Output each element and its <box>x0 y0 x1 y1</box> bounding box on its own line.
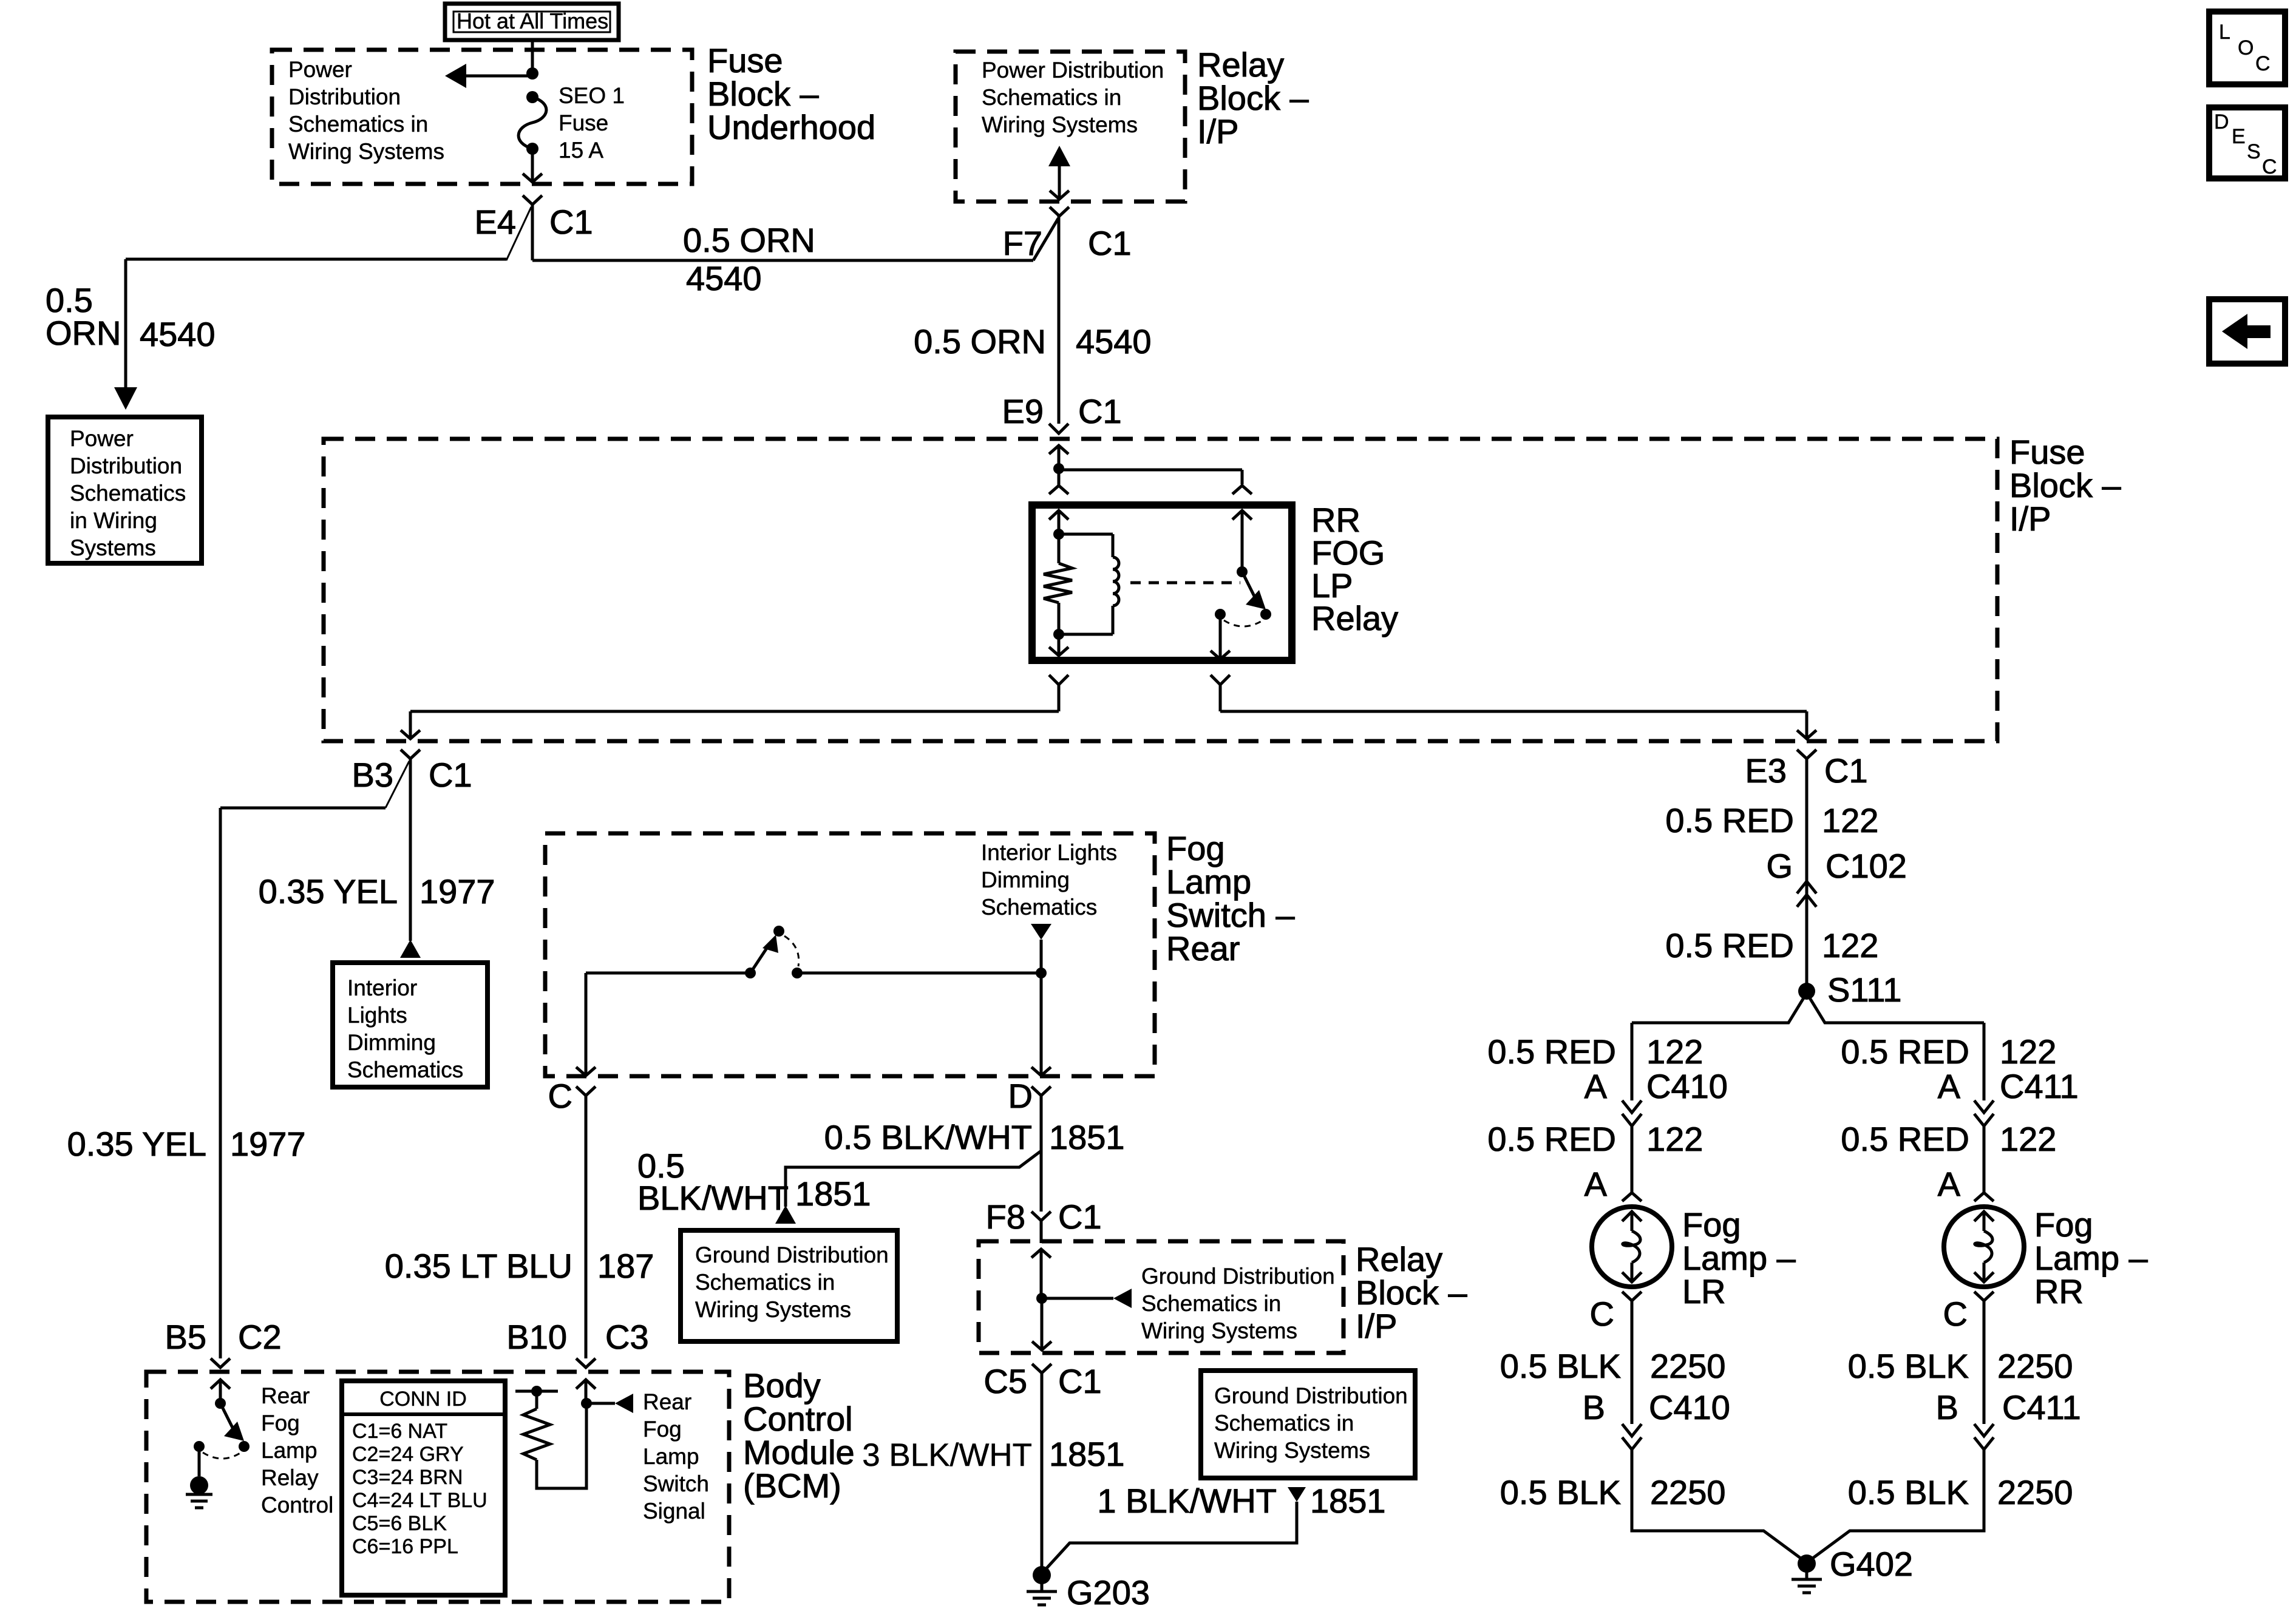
wire: coil low side to relay box bottom <box>1049 634 1068 656</box>
svg-text:Interior Lights: Interior Lights <box>981 840 1117 865</box>
svg-text:(BCM): (BCM) <box>743 1466 841 1505</box>
svg-text:B10: B10 <box>506 1318 567 1356</box>
svg-text:C: C <box>548 1077 572 1115</box>
connector C (switch) <box>548 1077 596 1115</box>
BCM relay control switch (B5 input) <box>194 1380 250 1459</box>
svg-text:C411: C411 <box>2000 1067 2079 1105</box>
title: Body Control Module (BCM) <box>743 1366 855 1505</box>
relay block I/P small dashed box (bottom) <box>979 1241 1343 1353</box>
title: Relay Block - I/P (bottom) <box>1356 1240 1467 1345</box>
wire arrow to ground distribution reference (right) <box>1042 1289 1132 1308</box>
pull-up resistor in BCM <box>515 1386 586 1488</box>
svg-text:C3=24 BRN: C3=24 BRN <box>352 1466 463 1489</box>
svg-text:A: A <box>1938 1067 1961 1105</box>
svg-text:E4: E4 <box>475 203 517 241</box>
svg-text:C: C <box>2255 52 2271 75</box>
connector at lamp RR pin C <box>1943 1292 1994 1333</box>
connector B / C411 (double chevron) <box>1936 1388 2081 1449</box>
svg-text:D: D <box>2214 110 2229 134</box>
svg-text:Fog: Fog <box>2034 1205 2093 1244</box>
connector at lamp LR pin C <box>1590 1292 1642 1333</box>
svg-text:LR: LR <box>1682 1272 1726 1310</box>
reference box: Power Distribution Schematics in Wiring Systems (left) <box>48 417 202 563</box>
connector at lamp RR pin A <box>1974 1193 1994 1201</box>
svg-text:C1: C1 <box>1058 1362 1102 1400</box>
svg-text:O: O <box>2238 36 2254 59</box>
svg-text:E: E <box>2232 125 2246 148</box>
svg-text:Underhood: Underhood <box>707 108 875 146</box>
svg-text:1977: 1977 <box>419 872 495 910</box>
svg-text:I/P: I/P <box>1197 112 1238 151</box>
title: RR FOG LP Relay <box>1311 501 1398 637</box>
svg-text:Rear: Rear <box>643 1389 691 1414</box>
svg-text:1 BLK/WHT: 1 BLK/WHT <box>1097 1482 1277 1520</box>
fog lamp RR (bulb symbol) <box>1944 1207 2024 1287</box>
svg-text:A: A <box>1938 1165 1961 1203</box>
svg-text:0.5 ORN: 0.5 ORN <box>914 322 1046 361</box>
svg-text:Relay: Relay <box>261 1465 319 1490</box>
svg-text:G402: G402 <box>1830 1545 1913 1583</box>
svg-text:B: B <box>1936 1388 1958 1426</box>
wire label: 0.5 BLK/WHT 1851 (branch) <box>637 1147 871 1217</box>
svg-text:Control: Control <box>743 1400 853 1438</box>
svg-text:B: B <box>1583 1388 1605 1426</box>
wire: switch to D exit arrow <box>1031 973 1051 1076</box>
svg-text:Rear: Rear <box>261 1383 310 1408</box>
reference text: Interior Lights Dimming Schematics (switch box) <box>981 840 1117 920</box>
connector: relay switch pin (top right) <box>1232 486 1252 494</box>
fog lamp LR (bulb symbol) <box>1592 1207 1672 1287</box>
reference box: Ground Distribution Schematics in Wiring Systems (right) <box>1201 1371 1415 1478</box>
corner box back-arrow <box>2209 299 2285 364</box>
svg-text:0.5 BLK/WHT: 0.5 BLK/WHT <box>824 1118 1032 1156</box>
wire: B3 branch to B5 <box>220 808 385 1358</box>
connector A / C410 (double chevron) <box>1584 1067 1728 1126</box>
wire label: 0.5 RED 122 (right C411 above) <box>1841 1032 2056 1071</box>
svg-text:Ground Distribution: Ground Distribution <box>695 1242 889 1267</box>
reference box: Interior Lights Dimming Schematics <box>333 963 487 1087</box>
svg-text:2250: 2250 <box>1997 1473 2073 1511</box>
wire label: 0.5 RED 122 (E3 upper) <box>1665 801 1878 839</box>
svg-text:Dimming: Dimming <box>981 867 1070 892</box>
svg-text:Schematics in: Schematics in <box>1141 1291 1281 1316</box>
wire: C5 down to G203 <box>1041 1373 1044 1571</box>
svg-text:Fog: Fog <box>1166 829 1225 867</box>
svg-text:F8: F8 <box>986 1198 1025 1236</box>
svg-text:0.5 RED: 0.5 RED <box>1841 1120 1969 1158</box>
connector B3 / C1 <box>352 750 472 808</box>
svg-text:CONN ID: CONN ID <box>379 1388 467 1411</box>
node: switch output junction at D leg <box>1036 968 1047 978</box>
wire from Hot box down to junction <box>531 40 534 73</box>
svg-text:Fog: Fog <box>261 1411 300 1436</box>
svg-text:Wiring Systems: Wiring Systems <box>982 112 1138 137</box>
svg-text:Fuse: Fuse <box>707 41 783 80</box>
svg-text:C5=6 BLK: C5=6 BLK <box>352 1512 447 1535</box>
title: Fuse Block - I/P <box>2009 433 2121 538</box>
svg-text:C1: C1 <box>1088 224 1132 262</box>
reference text: Power Distribution Schematics in Wiring Systems (relay block) <box>982 58 1164 137</box>
wire label: 0.5 RED 122 (S111 feed) <box>1665 926 1878 964</box>
wire label: 0.5 BLK 2250 (RR upper) <box>1848 1347 2073 1385</box>
title: Fuse Block - Underhood <box>707 41 875 146</box>
wire label: 0.5 ORN 4540 (left drop) <box>46 281 216 353</box>
svg-text:Relay: Relay <box>1197 46 1284 84</box>
title: Fog Lamp - RR <box>2034 1205 2148 1310</box>
svg-text:SEO 1: SEO 1 <box>559 83 625 108</box>
svg-text:in Wiring: in Wiring <box>70 508 157 533</box>
connector: relay coil pin (top left) <box>1049 470 1068 494</box>
wire: B3 down to Interior Lights reference <box>400 759 421 958</box>
wire: reference arrow up + exit arrow down at F7 <box>1048 146 1070 199</box>
connector at lamp LR pin A <box>1622 1193 1642 1201</box>
corner box DESC <box>2209 107 2285 178</box>
reference box: Ground Distribution Schematics in Wiring Systems (left) <box>681 1230 897 1341</box>
svg-text:0.5 RED: 0.5 RED <box>1665 926 1794 964</box>
svg-text:Fog: Fog <box>643 1417 682 1442</box>
svg-text:D: D <box>1008 1077 1033 1115</box>
relay block I/P dashed box (top) <box>956 52 1185 202</box>
reference triangle + wire: 1 BLK/WHT to G203 <box>1044 1487 1306 1571</box>
wire: E3 down to S111 <box>1805 759 1809 991</box>
svg-text:Module: Module <box>743 1433 855 1471</box>
pin label text: Rear Fog Lamp Relay Control <box>261 1383 333 1517</box>
svg-text:0.5 RED: 0.5 RED <box>1841 1032 1969 1071</box>
wire arrow left to Power Distribution reference <box>445 64 532 88</box>
svg-text:C5: C5 <box>983 1362 1027 1400</box>
svg-text:Wiring Systems: Wiring Systems <box>288 139 444 164</box>
svg-text:C: C <box>2262 155 2277 178</box>
svg-text:Schematics: Schematics <box>347 1057 463 1082</box>
svg-text:F7: F7 <box>1003 224 1042 262</box>
svg-text:1851: 1851 <box>1049 1435 1125 1473</box>
svg-text:Wiring Systems: Wiring Systems <box>1141 1318 1297 1343</box>
relay U1 box: RR FOG LP Relay <box>1032 505 1292 660</box>
ground G402 <box>1792 1545 1913 1593</box>
svg-text:0.35 LT BLU: 0.35 LT BLU <box>385 1247 572 1285</box>
svg-text:A: A <box>1584 1165 1608 1203</box>
fuse block I/P big dashed box <box>324 439 1997 741</box>
corner box LOC <box>2209 12 2285 84</box>
ground G203 <box>1027 1566 1150 1612</box>
ground inside BCM (relay control) <box>186 1446 212 1508</box>
svg-text:C410: C410 <box>1649 1388 1730 1426</box>
title: Relay Block - I/P (top) <box>1197 46 1309 151</box>
svg-text:Schematics: Schematics <box>70 481 186 506</box>
wire label: 1 BLK/WHT 1851 <box>1097 1482 1385 1520</box>
svg-text:0.5 BLK: 0.5 BLK <box>1500 1347 1621 1385</box>
svg-text:Switch –: Switch – <box>1166 896 1295 934</box>
CONN ID table <box>342 1381 505 1595</box>
connector F8 / C1 <box>986 1198 1102 1236</box>
connector below relay (switch side) <box>1211 675 1230 711</box>
pin label text: Rear Fog Lamp Switch Signal <box>643 1389 709 1524</box>
svg-text:Lamp: Lamp <box>643 1444 699 1469</box>
svg-text:C410: C410 <box>1646 1067 1728 1105</box>
svg-text:Fuse: Fuse <box>2009 433 2085 471</box>
svg-text:Distribution: Distribution <box>70 453 182 478</box>
svg-text:C411: C411 <box>2002 1388 2081 1426</box>
svg-text:0.5 BLK: 0.5 BLK <box>1848 1347 1969 1385</box>
svg-text:Lights: Lights <box>347 1003 407 1028</box>
value label: SEO 1 / Fuse / 15 A <box>559 83 625 163</box>
wire: relay coil output bus to B3 <box>401 711 1059 739</box>
svg-text:Schematics in: Schematics in <box>1214 1411 1354 1436</box>
svg-text:Fuse: Fuse <box>559 110 608 135</box>
wire label: 0.5 BLK 2250 (LR upper) <box>1500 1347 1726 1385</box>
svg-text:Switch: Switch <box>643 1471 709 1496</box>
svg-text:Lamp: Lamp <box>1166 863 1251 901</box>
svg-text:C6=16 PPL: C6=16 PPL <box>352 1535 458 1558</box>
relay pin arrow (coil +) <box>1049 510 1068 534</box>
wire: C down to B10 <box>585 1096 588 1358</box>
svg-text:1851: 1851 <box>1310 1482 1386 1520</box>
wire: branch over to switch pin <box>1059 470 1242 484</box>
svg-text:Body: Body <box>743 1366 821 1405</box>
node: junction dot at fuse top feed <box>526 67 538 80</box>
node: switch pivot <box>1237 566 1248 577</box>
svg-text:187: 187 <box>597 1247 654 1285</box>
node: splice S111 <box>1798 971 1901 1009</box>
node: coil bottom junction <box>1053 629 1064 640</box>
svg-text:0.5 ORN: 0.5 ORN <box>683 221 815 259</box>
connector F7 / C1 <box>1003 207 1132 262</box>
coil (relay winding) <box>1059 534 1119 634</box>
svg-text:I/P: I/P <box>2009 500 2051 538</box>
svg-text:2250: 2250 <box>1997 1347 2073 1385</box>
node: coil top junction <box>1053 529 1064 540</box>
svg-text:C1: C1 <box>549 203 593 241</box>
svg-text:Hot at All Times: Hot at All Times <box>457 8 608 33</box>
svg-text:BLK/WHT: BLK/WHT <box>637 1179 789 1217</box>
svg-text:122: 122 <box>1822 926 1878 964</box>
svg-text:L: L <box>2219 21 2230 44</box>
svg-text:Power: Power <box>288 57 352 82</box>
wire: F7 down to E9 <box>1058 216 1061 424</box>
svg-text:G: G <box>1766 847 1793 885</box>
wire: left drop 0.5 ORN with arrow into Power Distribution box <box>114 259 137 410</box>
connector below relay (coil side) <box>1049 675 1068 711</box>
svg-text:Power: Power <box>70 426 134 451</box>
svg-text:0.35 YEL: 0.35 YEL <box>259 872 398 910</box>
svg-text:122: 122 <box>1822 801 1878 839</box>
svg-text:0.35 YEL: 0.35 YEL <box>67 1125 206 1163</box>
wire: D down to F8 <box>1040 1096 1043 1212</box>
svg-text:G203: G203 <box>1067 1573 1150 1612</box>
svg-text:B3: B3 <box>352 756 394 794</box>
svg-text:Lamp –: Lamp – <box>1682 1239 1796 1277</box>
title: Fog Lamp Switch - Rear <box>1166 829 1295 968</box>
svg-text:122: 122 <box>1646 1120 1703 1158</box>
wire: C411 to lamp RR pin A <box>1983 1126 1986 1192</box>
svg-text:0.5 RED: 0.5 RED <box>1487 1032 1616 1071</box>
svg-text:2250: 2250 <box>1650 1473 1726 1511</box>
power label box "Hot at All Times" <box>445 4 619 40</box>
svg-text:122: 122 <box>1646 1032 1703 1071</box>
wire label: 0.5 RED 122 (lamp RR feed) <box>1841 1120 2056 1158</box>
svg-text:E3: E3 <box>1745 751 1787 790</box>
connector B5 / C2 <box>165 1318 282 1368</box>
wire label: 3 BLK/WHT 1851 <box>862 1435 1124 1473</box>
svg-text:C4=24 LT BLU: C4=24 LT BLU <box>352 1489 487 1512</box>
wire: switch output to relay box bottom <box>1211 614 1230 659</box>
wire: both lamp grounds converge to G402 <box>1632 1449 1984 1560</box>
svg-text:Schematics: Schematics <box>981 895 1097 920</box>
svg-text:C: C <box>1943 1295 1968 1333</box>
fuse SEO 1 15A (S-curve symbol with end dots) <box>518 91 546 155</box>
svg-text:4540: 4540 <box>1076 322 1152 361</box>
node: ground splice in relay block <box>1036 1293 1047 1304</box>
wire: branch to ground distribution reference <box>775 1151 1041 1224</box>
svg-text:Wiring Systems: Wiring Systems <box>1214 1438 1370 1463</box>
wire: relay switched output bus to E3 <box>1220 711 1816 739</box>
svg-text:Interior: Interior <box>347 975 417 1000</box>
switch S1 (fog lamp switch contacts) <box>745 926 803 978</box>
svg-text:4540: 4540 <box>686 259 762 297</box>
svg-text:C1: C1 <box>1824 751 1868 790</box>
svg-text:Schematics in: Schematics in <box>695 1270 835 1295</box>
svg-text:S: S <box>2247 140 2261 163</box>
wire label: 0.5 BLK/WHT 1851 (D leg) <box>824 1118 1125 1156</box>
svg-text:Distribution: Distribution <box>288 84 401 109</box>
svg-text:E9: E9 <box>1002 392 1044 430</box>
fuse block underhood dashed box <box>272 50 692 184</box>
node: junction dot feeding coil and switch <box>1053 463 1064 474</box>
wire: lamp RR ground lead <box>1983 1301 1986 1424</box>
resistor (relay suppression) <box>1044 534 1072 634</box>
wire: E9 entry arrow into fuse block I/P <box>1049 446 1068 469</box>
svg-text:Lamp –: Lamp – <box>2034 1239 2148 1277</box>
wire label: 0.5 RED 122 (left C410 above) <box>1487 1032 1703 1071</box>
BCM switch-signal input (B10) <box>576 1380 633 1413</box>
svg-text:Rear: Rear <box>1166 929 1240 968</box>
svg-text:3 BLK/WHT: 3 BLK/WHT <box>862 1437 1032 1473</box>
svg-text:0.5 RED: 0.5 RED <box>1487 1120 1616 1158</box>
svg-text:Relay: Relay <box>1356 1240 1442 1278</box>
svg-text:RR: RR <box>2034 1272 2084 1310</box>
svg-text:0.5 BLK: 0.5 BLK <box>1500 1473 1621 1511</box>
connector B / C410 (double chevron) <box>1583 1388 1730 1449</box>
svg-text:Lamp: Lamp <box>261 1438 318 1463</box>
wire: F8 entry arrow <box>1031 1221 1051 1298</box>
connector B10 / C3 <box>506 1318 648 1368</box>
reference text: Power Distribution Schematics in Wiring Systems (underhood) <box>288 57 444 164</box>
connector E4 / C1 <box>475 195 593 260</box>
switch arm with arrowhead <box>1242 572 1266 609</box>
wire label: 0.35 YEL 1977 (lower) <box>67 1125 306 1163</box>
wire: switch to C exit arrow <box>576 973 596 1076</box>
svg-text:0.5 BLK: 0.5 BLK <box>1848 1473 1969 1511</box>
svg-text:C1: C1 <box>429 756 472 794</box>
wire label: 0.35 YEL 1977 (upper) <box>259 872 495 910</box>
svg-text:15 A: 15 A <box>559 138 603 163</box>
svg-text:Schematics in: Schematics in <box>982 85 1121 110</box>
svg-text:S111: S111 <box>1827 971 1901 1009</box>
svg-text:Signal: Signal <box>643 1499 705 1524</box>
wire: C410 to lamp LR pin A <box>1631 1126 1634 1192</box>
svg-text:Ground Distribution: Ground Distribution <box>1141 1264 1335 1289</box>
dashed travel arc <box>1224 620 1263 626</box>
svg-text:B5: B5 <box>165 1318 207 1356</box>
svg-text:122: 122 <box>2000 1120 2056 1158</box>
svg-text:Fog: Fog <box>1682 1205 1741 1244</box>
svg-text:A: A <box>1584 1067 1608 1105</box>
svg-text:C1: C1 <box>1078 392 1122 430</box>
connector C5 / C1 <box>983 1362 1101 1400</box>
connector D (switch) <box>1008 1077 1051 1115</box>
svg-text:Dimming: Dimming <box>347 1030 436 1055</box>
svg-text:C: C <box>1590 1295 1614 1333</box>
svg-text:ORN: ORN <box>46 314 121 352</box>
wire: S111 split to both lamps <box>1632 993 1984 1100</box>
connector E3 / C1 <box>1745 750 1868 790</box>
svg-text:2250: 2250 <box>1650 1347 1726 1385</box>
node: switch output contact <box>1215 609 1226 620</box>
svg-text:Power Distribution: Power Distribution <box>982 58 1164 83</box>
wire label: 0.5 BLK 2250 (RR lower) <box>1848 1473 2073 1511</box>
wire: switch internal bus <box>586 972 1041 975</box>
fog lamp switch dashed box <box>545 833 1155 1076</box>
title: Fog Lamp - LR <box>1682 1205 1796 1310</box>
wire label: 0.5 RED 122 (lamp LR feed) <box>1487 1120 1703 1158</box>
svg-text:Block –: Block – <box>1197 79 1309 117</box>
svg-text:Block –: Block – <box>707 75 819 113</box>
wire label: 0.5 ORN 4540 (middle) <box>914 322 1151 361</box>
svg-text:I/P: I/P <box>1356 1307 1397 1345</box>
wire: lamp LR ground lead <box>1631 1301 1634 1424</box>
wire: E4 to bus, bus to left drop and to F7 <box>126 205 1058 260</box>
relay pin arrow (switch common) <box>1232 510 1252 572</box>
svg-text:C1=6 NAT: C1=6 NAT <box>352 1420 447 1443</box>
svg-text:C2=24 GRY: C2=24 GRY <box>352 1443 464 1466</box>
svg-text:C3: C3 <box>605 1318 649 1356</box>
svg-text:1851: 1851 <box>1049 1118 1125 1156</box>
svg-text:Wiring Systems: Wiring Systems <box>695 1297 851 1322</box>
svg-text:4540: 4540 <box>140 315 216 353</box>
reference triangle into dimming schematics <box>1031 924 1051 973</box>
svg-text:1851: 1851 <box>795 1175 871 1213</box>
BCM dashed box <box>146 1372 729 1602</box>
svg-text:Block –: Block – <box>1356 1273 1467 1312</box>
node: switch travel contact <box>1260 609 1271 620</box>
svg-text:Systems: Systems <box>70 535 156 560</box>
wire label: 0.35 LT BLU 187 <box>385 1247 654 1285</box>
wire: fuse output arrow exiting underhood block <box>523 154 542 182</box>
svg-text:C1: C1 <box>1058 1198 1102 1236</box>
connector E9 / C1 <box>1002 392 1122 433</box>
svg-text:C102: C102 <box>1826 847 1907 885</box>
connector G / C102 (double chevron) <box>1766 847 1906 907</box>
wire: relay block exit arrow down to C5 <box>1032 1298 1051 1350</box>
svg-text:Block –: Block – <box>2009 466 2121 504</box>
wire label: 0.5 BLK 2250 (LR lower) <box>1500 1473 1726 1511</box>
svg-text:Relay: Relay <box>1311 599 1398 637</box>
connector A / C411 (double chevron) <box>1938 1067 2079 1126</box>
svg-text:1977: 1977 <box>230 1125 306 1163</box>
svg-text:Control: Control <box>261 1493 333 1517</box>
reference text: Ground Distribution Schematics in Wiring Systems (in relay block) <box>1141 1264 1335 1343</box>
svg-text:Schematics in: Schematics in <box>288 112 428 137</box>
svg-text:0.5 RED: 0.5 RED <box>1665 801 1794 839</box>
svg-text:122: 122 <box>2000 1032 2056 1071</box>
wire label: 0.5 ORN 4540 (top bus) <box>683 221 815 297</box>
svg-text:Ground Distribution: Ground Distribution <box>1214 1383 1408 1408</box>
dashed actuation link <box>1130 581 1240 585</box>
svg-text:C2: C2 <box>238 1318 282 1356</box>
